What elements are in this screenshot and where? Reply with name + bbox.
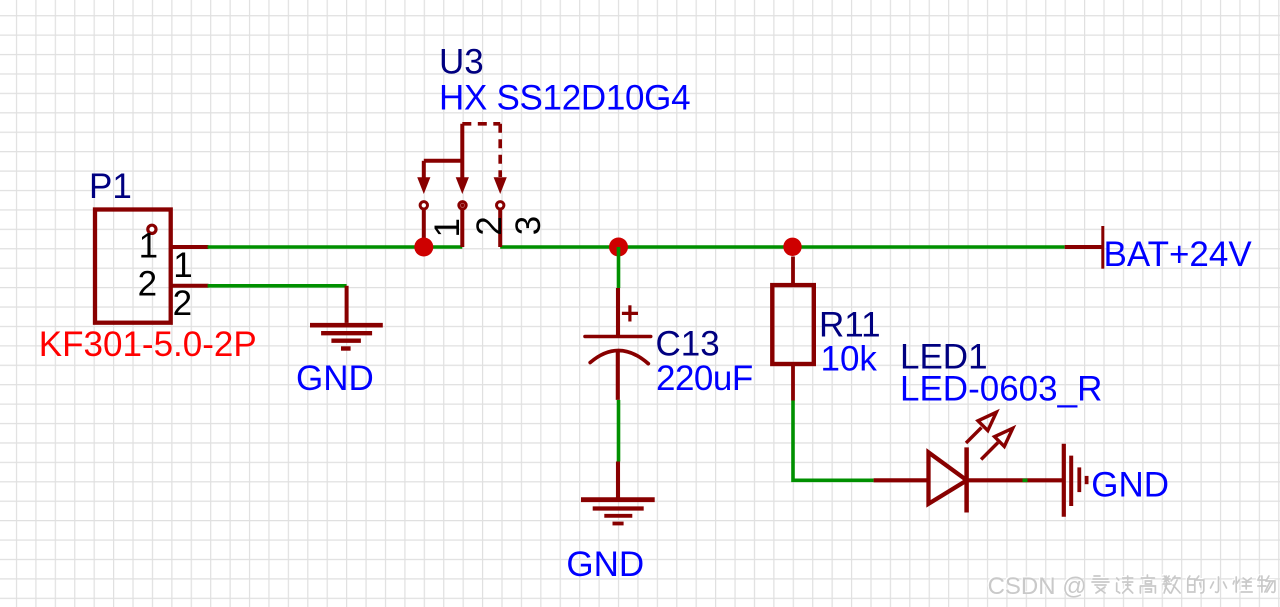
svg-text:1: 1 [139, 227, 158, 266]
wire P1 pin2 to GND [208, 284, 347, 288]
svg-text:HX SS12D10G4: HX SS12D10G4 [439, 79, 690, 118]
svg-text:GND: GND [1091, 466, 1169, 505]
wire R11 to LED1 [793, 401, 874, 481]
svg-text:GND: GND [566, 545, 644, 584]
U3 pin 1 circle [420, 202, 427, 209]
LED1 light arrow 1 [966, 412, 996, 443]
ground symbol GND2 (C13) [581, 462, 655, 524]
svg-text:C13: C13 [656, 325, 720, 364]
net flag BAT+24V bar [1101, 226, 1104, 269]
U3 arrow to pin 2 [456, 177, 469, 194]
P1 pin 1 stub [171, 245, 209, 249]
wire switch pin3 to BAT+24V flag [500, 245, 1064, 249]
C13 polarity plus sign [622, 305, 638, 321]
junction dot at C13 branch [609, 238, 628, 257]
capacitor C13 [585, 288, 651, 400]
wire stub at LED cathode [1023, 478, 1028, 482]
svg-text:LED-0603_R: LED-0603_R [900, 370, 1102, 409]
svg-text:2: 2 [470, 216, 509, 235]
wire C13 top [617, 247, 621, 288]
svg-text:CSDN @: CSDN @ [988, 573, 1087, 600]
junction dot at R11 branch [783, 238, 801, 256]
U3 dashed throw path [462, 124, 500, 177]
U3 arrow to pin 1 [417, 177, 430, 194]
svg-text:10k: 10k [821, 340, 878, 379]
svg-text:2: 2 [138, 264, 157, 303]
svg-text:3: 3 [509, 216, 548, 235]
svg-text:GND: GND [296, 359, 374, 398]
P1 pin 2 stub [171, 284, 209, 288]
svg-text:1: 1 [173, 246, 192, 285]
ground symbol GND1 (P1 pin2) [310, 286, 383, 349]
LED1 light arrow 2 [981, 428, 1013, 459]
junction dot at switch pin 1 [414, 238, 433, 257]
resistor R11 [772, 257, 814, 401]
wire C13 bottom to GND [617, 400, 621, 462]
U3 pin 2 circle [459, 202, 466, 209]
svg-text:U3: U3 [439, 42, 484, 81]
U3 pin 3 stub [498, 210, 502, 247]
U3 pin 1 stub [422, 210, 426, 247]
U3 pin 3 circle [497, 202, 504, 209]
watermark CSDN @username [986, 572, 1275, 600]
net flag BAT+24V pin [1065, 245, 1103, 249]
svg-text:2: 2 [173, 284, 192, 323]
LED1 diode [874, 447, 1064, 512]
P1 pin 1 circle marker [148, 225, 156, 233]
svg-text:P1: P1 [89, 167, 132, 206]
svg-text:KF301-5.0-2P: KF301-5.0-2P [39, 325, 257, 364]
U3 pin 2 stub [460, 210, 464, 247]
svg-text:BAT+24V: BAT+24V [1104, 235, 1253, 274]
wire pin1 to switch (net BAT) [208, 245, 463, 249]
svg-text:1: 1 [428, 218, 467, 237]
U3 arrow to pin 3 [494, 177, 507, 194]
switch U3 [424, 124, 463, 179]
svg-text:220uF: 220uF [656, 359, 753, 398]
connector P1 [95, 210, 171, 323]
ground symbol GND3 (LED) [1064, 444, 1087, 517]
